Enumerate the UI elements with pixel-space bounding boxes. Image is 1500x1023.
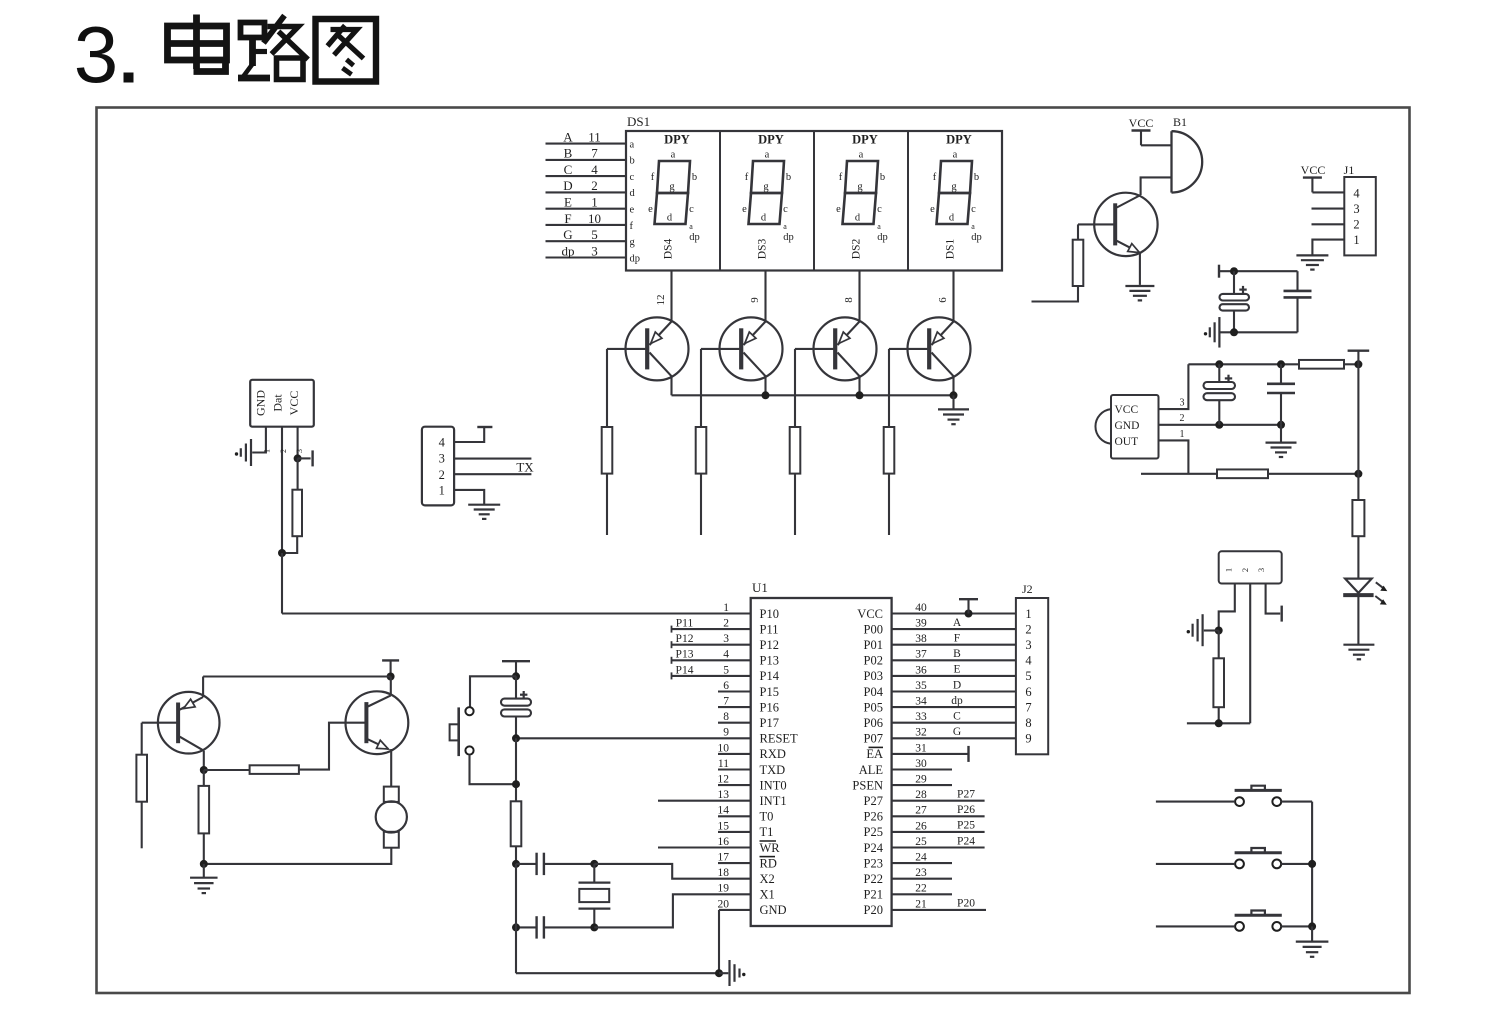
- junction node: [512, 672, 520, 680]
- svg-text:3: 3: [1353, 202, 1359, 216]
- svg-text:3: 3: [1180, 398, 1185, 409]
- svg-text:6: 6: [1025, 685, 1031, 699]
- svg-text:f: f: [630, 221, 634, 232]
- net label dp / segment wire pin 3: [546, 243, 641, 264]
- svg-text:d: d: [667, 213, 673, 224]
- junction node: [1354, 360, 1362, 368]
- svg-text:P06: P06: [864, 716, 883, 730]
- U1 left pin label GND: [760, 903, 787, 917]
- wire U1 pin 32 net G to J2: [892, 726, 1016, 738]
- net label D / segment wire pin 2: [546, 178, 636, 199]
- svg-text:WR: WR: [760, 841, 781, 855]
- wire right of S4: [1281, 925, 1312, 927]
- wire pin 26 net P25: [892, 820, 985, 832]
- wire left of S3: [1156, 863, 1235, 865]
- svg-text:f: f: [839, 172, 843, 183]
- svg-text:7: 7: [591, 146, 598, 161]
- wire stub below R2: [700, 474, 702, 535]
- push button S4: [1235, 911, 1282, 931]
- wire TX pin 1 to ground: [454, 490, 484, 504]
- U1 right pin label P27: [864, 794, 883, 808]
- net label E / segment wire pin 1: [546, 194, 635, 215]
- wire VCC node line: [1188, 363, 1299, 365]
- wire U1 pin 14 stub: [718, 815, 751, 817]
- resistor R13 (coupling): [250, 765, 299, 774]
- wire EA pin 31 to power tap: [892, 746, 969, 762]
- junction node: [200, 860, 208, 868]
- transistor Q5 (buzzer driver, NPN): [1078, 193, 1158, 256]
- svg-text:3: 3: [591, 243, 598, 258]
- junction node: [1215, 360, 1223, 368]
- svg-text:P21: P21: [864, 888, 883, 902]
- U1 right pin label P23: [864, 856, 883, 870]
- svg-text:dp: dp: [971, 232, 982, 243]
- LED D1: [1343, 579, 1387, 605]
- svg-text:P02: P02: [864, 654, 883, 668]
- svg-text:2: 2: [1180, 413, 1185, 424]
- svg-text:9: 9: [749, 297, 761, 303]
- svg-text:4: 4: [723, 649, 729, 661]
- resistor R5 (Q5 base): [1073, 240, 1084, 286]
- svg-text:13: 13: [718, 789, 730, 801]
- svg-text:P11: P11: [676, 618, 694, 630]
- svg-text:c: c: [783, 204, 788, 215]
- junction node: [294, 454, 302, 462]
- ground (filter caps): [1204, 317, 1220, 348]
- svg-text:VCC: VCC: [1129, 116, 1154, 130]
- net label wire P12 (pin 3): [672, 633, 751, 648]
- wire Q5 base: [1077, 224, 1079, 239]
- svg-text:C: C: [953, 711, 961, 723]
- svg-text:P20: P20: [957, 898, 975, 910]
- capacitor C2: [1284, 271, 1312, 332]
- svg-text:9: 9: [723, 727, 729, 739]
- ground (J1): [1296, 255, 1328, 269]
- svg-text:DS3: DS3: [757, 239, 769, 260]
- svg-text:15: 15: [718, 820, 730, 832]
- svg-text:X2: X2: [760, 872, 775, 886]
- U1 right pin label P00: [864, 622, 883, 636]
- svg-text:P27: P27: [864, 794, 883, 808]
- svg-text:P12: P12: [676, 633, 694, 645]
- svg-text:14: 14: [718, 805, 730, 817]
- svg-text:f: f: [745, 172, 749, 183]
- svg-text:P17: P17: [760, 716, 779, 730]
- svg-text:A: A: [953, 617, 962, 629]
- capacitor C3 (electrolytic): [1204, 364, 1236, 425]
- wire sensor VCC pin 3: [295, 427, 304, 459]
- wire TX pin 2 net TX: [454, 459, 534, 474]
- wire Q6 base to R12: [141, 723, 143, 755]
- svg-text:B: B: [564, 146, 573, 161]
- svg-text:9: 9: [1025, 732, 1031, 746]
- svg-text:U1: U1: [752, 580, 768, 595]
- connector TX header: [422, 427, 454, 506]
- wire display DS1 common pin 6: [937, 271, 954, 322]
- svg-text:g: g: [763, 182, 769, 193]
- wire VCC to J1 pin 4: [1312, 191, 1344, 193]
- junction node: [1215, 719, 1223, 727]
- wire GND pin 20: [719, 909, 751, 911]
- svg-text:17: 17: [718, 852, 730, 864]
- ground (buttons): [1296, 926, 1329, 956]
- U1 left pin label P12: [760, 638, 779, 652]
- svg-text:P00: P00: [864, 622, 883, 636]
- wire VCC to reset switch: [470, 676, 516, 707]
- svg-text:b: b: [692, 172, 697, 183]
- wire stub below R1: [606, 474, 608, 535]
- svg-text:PSEN: PSEN: [852, 778, 883, 792]
- svg-text:P25: P25: [957, 820, 975, 832]
- motor M1: [376, 787, 407, 848]
- wire top node: [1219, 270, 1298, 272]
- U1 right pin label P22: [864, 872, 883, 886]
- svg-text:16: 16: [718, 836, 730, 848]
- transistor Q2 (display driver): [701, 317, 783, 380]
- wire sensor GND pin 1: [252, 427, 271, 453]
- svg-text:a: a: [783, 222, 787, 231]
- svg-text:10: 10: [718, 742, 730, 754]
- svg-text:2: 2: [279, 449, 288, 453]
- junction node: [278, 549, 286, 557]
- transistor Q1 (display driver): [607, 317, 689, 380]
- wire Q5 emitter to ground: [1139, 253, 1141, 285]
- wire base of Q1 down to resistor: [606, 349, 608, 427]
- net label wire P13 (pin 4): [672, 649, 751, 664]
- svg-text:P22: P22: [864, 872, 883, 886]
- wire P10 net (sensor data to U1 pin 1): [282, 612, 751, 614]
- U1 right pin label P01: [864, 638, 883, 652]
- net label F / segment wire pin 10: [546, 211, 634, 232]
- wire U1 pin 38 net F to J2: [892, 633, 1016, 645]
- capacitor C5 (electrolytic, reset): [501, 676, 531, 738]
- svg-text:P05: P05: [864, 700, 883, 714]
- svg-text:P03: P03: [864, 669, 883, 683]
- svg-text:ALE: ALE: [859, 763, 884, 777]
- wire collector of Q1: [670, 376, 672, 395]
- svg-text:g: g: [951, 182, 957, 193]
- resistor R10 (reset pulldown): [511, 801, 522, 846]
- junction node: [1215, 421, 1223, 429]
- U1 left pin label P17: [760, 716, 779, 730]
- svg-text:3: 3: [723, 633, 729, 645]
- svg-text:d: d: [761, 213, 767, 224]
- ground (display drivers): [938, 395, 969, 424]
- svg-text:26: 26: [915, 820, 927, 832]
- power rail tap: [1218, 265, 1220, 278]
- U1 right pin label P20: [864, 903, 883, 917]
- wire header pin 2: [1249, 584, 1251, 724]
- svg-text:b: b: [786, 172, 791, 183]
- svg-text:3: 3: [1256, 568, 1266, 572]
- wire reset switch bottom: [470, 755, 517, 785]
- resistor R12 (Q6 base): [136, 755, 147, 802]
- svg-text:e: e: [930, 204, 935, 215]
- svg-text:e: e: [836, 204, 841, 215]
- resistor R9: [1213, 631, 1224, 724]
- svg-text:3: 3: [1025, 638, 1031, 652]
- junction node: [512, 780, 520, 788]
- svg-text:GND: GND: [760, 903, 787, 917]
- junction node: [762, 391, 770, 399]
- svg-text:38: 38: [915, 633, 927, 645]
- svg-text:b: b: [880, 172, 885, 183]
- wire pin 28 net P27: [892, 789, 985, 801]
- power tap (sensor VCC): [298, 450, 313, 466]
- svg-text:VCC: VCC: [287, 391, 301, 416]
- push button S2: [1235, 786, 1282, 806]
- U1 left pin label WR: [760, 841, 781, 855]
- resistor R1 (base of Q1): [602, 427, 613, 474]
- wire crystal node to X1: [594, 894, 750, 927]
- svg-text:DS2: DS2: [851, 239, 863, 260]
- svg-text:27: 27: [915, 805, 927, 817]
- svg-text:X1: X1: [760, 888, 775, 902]
- wire TX pin 3 stub: [454, 458, 531, 460]
- svg-text:25: 25: [915, 836, 927, 848]
- svg-text:P23: P23: [864, 856, 883, 870]
- svg-text:10: 10: [588, 211, 601, 226]
- wire collector of Q3: [858, 376, 860, 395]
- svg-text:dp: dp: [783, 232, 794, 243]
- net label G / segment wire pin 5: [546, 227, 636, 248]
- svg-text:g: g: [630, 237, 636, 248]
- resistor R11 (sensor pull-up): [282, 458, 302, 553]
- U1 left pin label P13: [760, 654, 779, 668]
- net label C / segment wire pin 4: [546, 162, 635, 183]
- svg-text:8: 8: [843, 297, 855, 303]
- svg-text:E: E: [953, 664, 960, 676]
- svg-text:T0: T0: [760, 810, 774, 824]
- capacitor C7 (crystal): [516, 916, 594, 938]
- svg-text:P15: P15: [760, 685, 779, 699]
- wire stub below R12: [141, 802, 143, 849]
- junction node: [1277, 421, 1285, 429]
- capacitor C4: [1267, 364, 1295, 425]
- svg-text:P26: P26: [957, 804, 975, 816]
- power VCC (buzzer): [1129, 116, 1154, 145]
- svg-text:4: 4: [591, 162, 598, 177]
- wire J1 pin 3 stub: [1312, 208, 1345, 210]
- svg-text:3: 3: [439, 451, 445, 465]
- wire U1 pin 7 stub: [718, 706, 751, 708]
- svg-text:P25: P25: [864, 825, 883, 839]
- svg-text:DS1: DS1: [627, 114, 650, 129]
- svg-text:19: 19: [718, 883, 730, 895]
- IR receiver module (VCC GND OUT): [1095, 395, 1158, 459]
- svg-text:TX: TX: [516, 459, 534, 474]
- svg-text:33: 33: [915, 711, 927, 723]
- svg-text:32: 32: [915, 727, 927, 739]
- 7-segment digit DS3: [742, 133, 794, 260]
- svg-text:dp: dp: [562, 243, 575, 258]
- net label wire P14 (pin 5): [672, 664, 751, 679]
- svg-text:P11: P11: [760, 622, 779, 636]
- svg-text:GND: GND: [254, 390, 268, 416]
- wire header pin 1: [1219, 584, 1235, 631]
- crystal Y1: [579, 864, 611, 928]
- U1 left pin label RD: [760, 856, 777, 870]
- junction node: [200, 766, 208, 774]
- wire U1 pin 34 net dp to J2: [892, 695, 1016, 707]
- U1 left pin label RESET: [760, 732, 799, 746]
- U1 left pin label X1: [760, 888, 775, 902]
- svg-text:c: c: [630, 172, 635, 183]
- svg-text:b: b: [974, 172, 979, 183]
- svg-text:J2: J2: [1022, 582, 1033, 596]
- wire bottom node (header): [1187, 722, 1250, 724]
- svg-text:b: b: [630, 156, 635, 167]
- svg-text:TXD: TXD: [760, 763, 786, 777]
- junction node: [1215, 627, 1223, 635]
- svg-text:31: 31: [915, 742, 927, 754]
- svg-text:P13: P13: [676, 649, 694, 661]
- svg-text:VCC: VCC: [857, 607, 883, 621]
- wire U1 pin 10 stub: [718, 753, 751, 755]
- svg-text:12: 12: [655, 295, 667, 306]
- svg-text:c: c: [689, 204, 694, 215]
- buzzer B1: [1172, 115, 1203, 193]
- svg-text:4: 4: [1353, 186, 1360, 200]
- svg-text:P14: P14: [676, 664, 694, 676]
- wire U1 pin 37 net B to J2: [892, 648, 1016, 660]
- wire sensor Dat pin 2: [279, 427, 288, 553]
- svg-text:3: 3: [74, 10, 119, 99]
- svg-text:a: a: [953, 150, 958, 161]
- ground (IR GND): [1266, 425, 1297, 457]
- svg-text:P07: P07: [864, 732, 883, 746]
- svg-text:23: 23: [915, 867, 927, 879]
- svg-text:a: a: [765, 150, 770, 161]
- svg-text:P20: P20: [864, 903, 883, 917]
- push button S3: [1235, 848, 1282, 868]
- svg-text:1: 1: [439, 484, 445, 498]
- wire R6 to LED branch: [1344, 363, 1358, 365]
- svg-text:d: d: [855, 213, 861, 224]
- U1 right pin label P21: [864, 888, 883, 902]
- svg-text:1: 1: [723, 602, 729, 614]
- svg-text:2: 2: [1240, 568, 1250, 572]
- svg-text:P16: P16: [760, 700, 779, 714]
- svg-text:DPY: DPY: [946, 133, 972, 147]
- resistor R2 (base of Q2): [696, 427, 707, 474]
- U1 right pin label P07: [864, 732, 883, 746]
- wire common collector bus: [672, 394, 954, 396]
- svg-text:DPY: DPY: [758, 133, 784, 147]
- svg-text:P24: P24: [864, 841, 884, 855]
- display DS1 (4-digit 7-segment): [626, 114, 1002, 271]
- wire bottom node: [1219, 331, 1298, 333]
- wire pin 24 stub: [892, 862, 952, 864]
- junction node: [512, 923, 520, 931]
- connector J1: [1344, 163, 1376, 255]
- wire U1 pin 11 stub: [718, 768, 751, 770]
- svg-text:7: 7: [723, 696, 729, 708]
- wire base of Q4 down to resistor: [888, 349, 890, 427]
- svg-text:P13: P13: [760, 654, 779, 668]
- junction node: [1308, 860, 1316, 868]
- svg-text:RD: RD: [760, 856, 777, 870]
- wire buzzer to Q5 collector: [1141, 177, 1172, 195]
- svg-text:5: 5: [591, 227, 598, 242]
- wire U1 pin 17 stub: [718, 862, 751, 864]
- svg-text:d: d: [949, 213, 955, 224]
- 3-pin header J3: [1219, 551, 1282, 583]
- U1 right pin label P24: [864, 841, 884, 855]
- U1 right pin label ALE: [859, 763, 884, 777]
- svg-text:36: 36: [915, 664, 927, 676]
- wire RESET net: [516, 737, 751, 739]
- svg-text:c: c: [877, 204, 882, 215]
- svg-text:VCC: VCC: [1115, 404, 1139, 416]
- svg-text:dp: dp: [689, 232, 700, 243]
- svg-text:1: 1: [1224, 568, 1234, 572]
- svg-text:c: c: [971, 204, 976, 215]
- U1 left pin label P15: [760, 685, 779, 699]
- IC U1 (MCU): [751, 580, 892, 926]
- svg-text:P04: P04: [864, 685, 884, 699]
- wire J1 pin 2 stub: [1312, 223, 1345, 225]
- U1 left pin label P11: [760, 622, 779, 636]
- svg-text:4: 4: [1025, 654, 1032, 668]
- svg-text:INT0: INT0: [760, 778, 787, 792]
- transistor Q7 (NPN, right): [346, 677, 409, 755]
- wire right of S3: [1281, 863, 1312, 865]
- svg-text:GND: GND: [1115, 420, 1140, 432]
- wire base of Q3 down to resistor: [794, 349, 796, 427]
- svg-text:dp: dp: [630, 253, 641, 264]
- wire node to R13: [204, 769, 250, 771]
- junction node: [387, 673, 395, 681]
- svg-text:RXD: RXD: [760, 747, 786, 761]
- U1 right pin label VCC: [857, 607, 883, 621]
- wire WR stub: [658, 846, 751, 848]
- svg-text:a: a: [671, 150, 676, 161]
- svg-text:f: f: [651, 172, 655, 183]
- junction node: [856, 391, 864, 399]
- U1 left pin label INT0: [760, 778, 787, 792]
- U1 left pin label P14: [760, 669, 780, 683]
- net label B / segment wire pin 7: [546, 146, 635, 167]
- svg-text:1: 1: [1025, 607, 1031, 621]
- wire below R5: [1032, 286, 1079, 302]
- svg-text:4: 4: [439, 436, 446, 450]
- resistor R3 (base of Q3): [790, 427, 801, 474]
- wire OUT node line: [1141, 473, 1217, 475]
- svg-text:G: G: [953, 726, 961, 738]
- 7-segment digit DS1: [930, 133, 982, 260]
- svg-text:2: 2: [439, 468, 445, 482]
- capacitor C6 (crystal): [516, 853, 594, 875]
- svg-text:2: 2: [1353, 217, 1359, 231]
- wire left of S4: [1156, 925, 1235, 927]
- svg-text:2: 2: [1025, 622, 1031, 636]
- wire IR pin 1 (OUT): [1159, 429, 1189, 474]
- ground (LED): [1343, 645, 1374, 660]
- resistor R14 (Q6 collector load): [199, 770, 210, 864]
- push button S1 (reset): [450, 707, 474, 756]
- svg-text:34: 34: [915, 696, 927, 708]
- resistor R8 (LED): [1352, 500, 1364, 536]
- wire R8 to LED: [1357, 536, 1359, 578]
- wire J1 pin 1 to ground: [1312, 240, 1344, 255]
- svg-text:e: e: [630, 204, 635, 215]
- svg-text:P12: P12: [760, 638, 779, 652]
- svg-text:a: a: [971, 222, 975, 231]
- junction node: [512, 734, 520, 742]
- 7-segment digit DS4: [648, 133, 700, 260]
- wire reset node down: [515, 738, 517, 801]
